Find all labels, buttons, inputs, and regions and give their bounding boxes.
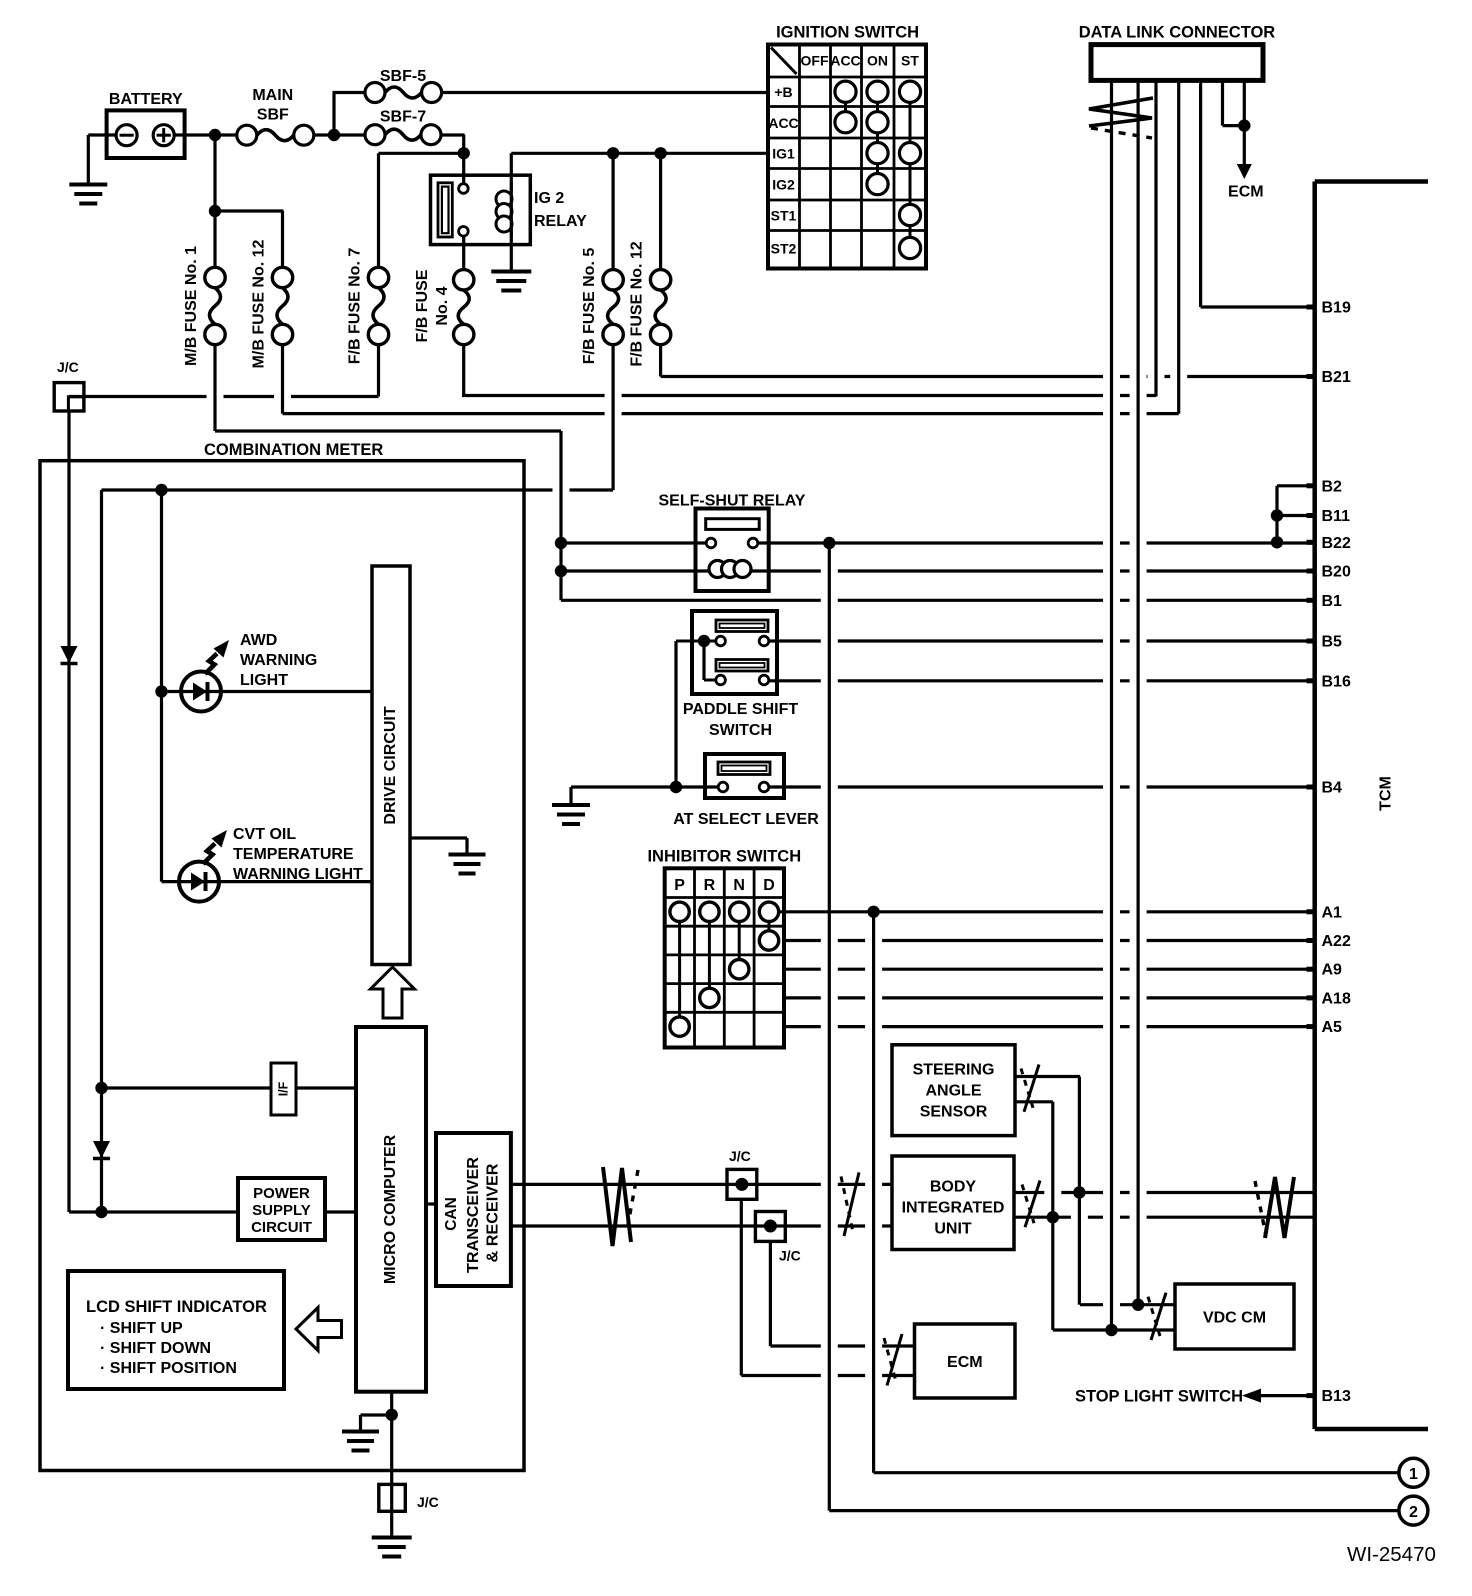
ground battery [69, 183, 107, 187]
node B18 tap [1047, 1211, 1059, 1223]
wire steering angle sensor out 2 (y=1101.8) [1015, 1100, 1053, 1103]
svg-text:CVT OIL: CVT OIL [233, 826, 296, 843]
VDC CM box [1175, 1284, 1294, 1349]
svg-text:INTEGRATED: INTEGRATED [902, 1200, 1005, 1217]
arrow drive circuit feed [371, 967, 415, 1018]
svg-text:ANGLE: ANGLE [926, 1083, 982, 1100]
wire bus to circled 2 (x=829.3) [828, 543, 831, 1511]
wire paddle internal link (x=704) [702, 641, 705, 680]
svg-text:B19: B19 [1322, 300, 1351, 317]
svg-text:RELAY: RELAY [534, 213, 587, 230]
svg-text:SUPPLY: SUPPLY [252, 1202, 311, 1219]
wire CAN high (y=1184.4) [511, 1183, 892, 1186]
pin A22 [1307, 933, 1351, 950]
wire B4 / AT select lever line (y=787) [571, 785, 1315, 788]
fuse F/B FUSE No.5 [581, 248, 623, 365]
svg-text:A1: A1 [1322, 904, 1343, 921]
pin B19 [1307, 300, 1351, 317]
svg-text:IGNITION SWITCH: IGNITION SWITCH [776, 24, 919, 42]
ground drive circuit [449, 853, 486, 857]
battery B1 [107, 91, 185, 158]
wire B21 line (y=376.5) [661, 375, 1315, 378]
svg-text:1: 1 [1409, 1466, 1418, 1483]
junction connector J/C top-left [54, 359, 84, 411]
steering angle sensor box [892, 1045, 1015, 1136]
wire SBF-5 riser (x=334) [332, 93, 335, 136]
fuse M/B FUSE No.12 [251, 239, 293, 368]
pin B20 [1307, 564, 1351, 581]
wire DLC pin 1 (x=1111.5) [1110, 80, 1113, 1330]
wire battery negative drop [87, 135, 90, 184]
svg-text:OFF: OFF [801, 53, 829, 69]
svg-text:ECM: ECM [1228, 184, 1264, 201]
svg-text:J/C: J/C [779, 1248, 801, 1264]
svg-text:B20: B20 [1322, 564, 1351, 581]
shield marker BIU left [844, 1172, 859, 1236]
wire SBF-7 to relay contact node (y=153.3) [379, 152, 466, 155]
ignition switch column links [846, 92, 911, 248]
wire B19 line (y=307) [1201, 305, 1315, 308]
wire J/C2 drop [769, 1241, 772, 1346]
svg-text:TRANSCEIVER: TRANSCEIVER [465, 1157, 482, 1273]
wire crossing breaks [207, 373, 1188, 1379]
wire B2/B11/B22 tie (x=1277) [1275, 486, 1278, 543]
svg-text:SBF-5: SBF-5 [380, 68, 426, 85]
wire J/C1 to ECM (y=1375.5) [741, 1374, 914, 1377]
wire circled 2 line (y=1510.6) [829, 1509, 1399, 1512]
node B22 tie [1271, 536, 1283, 548]
pin B2 [1307, 478, 1343, 495]
pin B5 [1307, 634, 1343, 651]
svg-text:ACC: ACC [768, 115, 798, 131]
node B11 tie [1271, 509, 1283, 521]
svg-text:POWER: POWER [253, 1185, 310, 1202]
wire F/B fuse No.4 lower lead [462, 342, 465, 396]
svg-text:2: 2 [1409, 1504, 1418, 1521]
wire A5 line (y=1026.6) [784, 1025, 1315, 1028]
wire DLC pin 5 to B19 (x=1200.6) [1199, 80, 1202, 307]
wire M/B fuse No.1 run (y=431) [215, 429, 561, 432]
svg-text:WARNING: WARNING [240, 652, 317, 669]
wire AWD LED (y=691.5) [162, 690, 373, 693]
wire relay contact to F/B fuse No.4 [462, 231, 465, 272]
wire micro computer ground (y=1415) [361, 1413, 392, 1416]
wire DLC to ECM arrow link (y=125.6) [1223, 124, 1245, 127]
fuse F/B FUSE No.12b [629, 241, 671, 366]
wire DLC pin 3 (x=1156) [1154, 80, 1157, 396]
LED CVT oil temp warning light [179, 830, 227, 902]
svg-text:J/C: J/C [57, 359, 79, 375]
wire A1 line (y=911.8) [779, 910, 1315, 913]
ignition switch labels [768, 53, 919, 257]
ground IG2 relay [491, 270, 531, 274]
pin B13 [1307, 1388, 1351, 1405]
wire micro ground drop (x=391.7) [390, 1392, 393, 1537]
node LED rail tap [155, 484, 167, 496]
wire micro to CAN transceiver (y=1204) [426, 1202, 436, 1205]
fuse SBF-5 [365, 68, 442, 103]
I/F box [271, 1063, 296, 1115]
drive circuit box [372, 566, 410, 965]
wire SBF-5 branch top (y=92.5) [333, 91, 769, 94]
micro computer box [356, 1027, 426, 1392]
wire F/B fuse No.5 upper lead [611, 153, 614, 272]
wire AT lever ground stub (x=571) [569, 787, 572, 804]
wire J/C rail (x=69) [67, 411, 70, 1212]
svg-text:B22: B22 [1322, 535, 1351, 552]
svg-text:N: N [733, 877, 745, 894]
wire meter supply rail (x=101.5) [100, 490, 103, 1212]
svg-text:ST2: ST2 [771, 241, 797, 257]
svg-text:DATA LINK CONNECTOR: DATA LINK CONNECTOR [1079, 24, 1276, 42]
svg-text:· SHIFT UP: · SHIFT UP [100, 1320, 183, 1337]
wire B5 line (y=641) [769, 639, 1315, 642]
wire M/B fuse No.12 lower lead [281, 342, 284, 414]
svg-text:D: D [763, 877, 775, 894]
svg-text:STEERING: STEERING [913, 1062, 995, 1079]
svg-text:M/B FUSE No. 1: M/B FUSE No. 1 [183, 246, 200, 366]
wire SAS1 drop (x=1079.4) [1078, 1077, 1081, 1305]
fuse M/B FUSE No.1 [183, 246, 225, 366]
circled 2 connector [1399, 1496, 1428, 1525]
svg-text:ECM: ECM [947, 1354, 983, 1371]
wire circled 1 line (y=1472.7) [874, 1471, 1399, 1474]
inhibitor switch table [647, 848, 801, 1048]
power supply circuit box [238, 1178, 325, 1240]
node power rail junction [95, 1206, 107, 1218]
wire drive circuit ground (y=838) [410, 836, 467, 839]
svg-text:CIRCUIT: CIRCUIT [251, 1219, 312, 1236]
wire A9 line (y=969.2) [784, 968, 1315, 971]
svg-text:B11: B11 [1322, 508, 1351, 525]
svg-text:TCM: TCM [1378, 776, 1395, 811]
wire J/C2 to ECM (y=1346) [770, 1344, 914, 1347]
svg-text:A9: A9 [1322, 962, 1343, 979]
wire B1 line (y=600.3) [561, 599, 1315, 602]
svg-text:BODY: BODY [930, 1179, 977, 1196]
twisted pair marker CAN [603, 1167, 631, 1246]
wire F/B fuse No.4 to DLC (y=395.5) [462, 394, 1156, 397]
node AT lever ground tap [670, 781, 682, 793]
wire B17 line (y=1192.5) [1014, 1191, 1315, 1194]
svg-text:LIGHT: LIGHT [240, 672, 288, 689]
svg-text:ST: ST [901, 53, 919, 69]
node micro ground tap [386, 1409, 398, 1421]
wire I/F branch (y=1088) [102, 1086, 357, 1089]
svg-text:PADDLE SHIFT: PADDLE SHIFT [683, 701, 798, 718]
svg-text:· SHIFT DOWN: · SHIFT DOWN [100, 1340, 211, 1357]
svg-text:R: R [704, 877, 716, 894]
TCM top edge [1315, 179, 1428, 184]
svg-text:CAN: CAN [443, 1197, 460, 1231]
wire M/B fuse No.1 drop to relays (x=561) [559, 431, 562, 600]
label CVT warning light [233, 826, 363, 883]
DLC twisted pair marker [1089, 98, 1153, 138]
svg-text:UNIT: UNIT [934, 1221, 972, 1238]
wire B16 line (y=680.8) [769, 679, 1315, 682]
wire to VDC CM upper (y=1304.7) [1080, 1303, 1175, 1306]
svg-text:AT SELECT LEVER: AT SELECT LEVER [673, 811, 819, 828]
node B22 bus tap [823, 537, 835, 549]
svg-text:DRIVE CIRCUIT: DRIVE CIRCUIT [382, 706, 399, 824]
wire power supply line (y=1212) [69, 1210, 356, 1213]
node F/B fuse No.12b tap [654, 147, 666, 159]
label AWD warning light [240, 632, 317, 689]
node paddle switch tap [698, 635, 710, 647]
wire DLC pin 2 (x=1138.1) [1136, 80, 1139, 1304]
AT select lever switch [673, 754, 819, 828]
svg-text:· SHIFT POSITION: · SHIFT POSITION [100, 1360, 237, 1377]
svg-text:B21: B21 [1322, 369, 1351, 386]
svg-text:SELF-SHUT RELAY: SELF-SHUT RELAY [659, 493, 806, 510]
wire F/B fuse No.5 into meter (y=490) [102, 488, 614, 491]
svg-text:TEMPERATURE: TEMPERATURE [233, 846, 354, 863]
self-shut relay [659, 493, 806, 592]
svg-text:MICRO COMPUTER: MICRO COMPUTER [382, 1134, 399, 1284]
relay IG2 [431, 175, 588, 244]
wire IG2 coil feed [510, 153, 513, 271]
ground bottom J/C [372, 1536, 412, 1540]
shield marker ECM [887, 1334, 902, 1386]
svg-text:IG1: IG1 [772, 146, 795, 162]
svg-text:F/B FUSE No. 5: F/B FUSE No. 5 [581, 248, 598, 365]
svg-text:F/B FUSE No. 7: F/B FUSE No. 7 [347, 248, 364, 365]
wire IG1 line from relay coil (y=153.3) [511, 152, 768, 155]
pin B16 [1307, 673, 1351, 690]
diode D1 on J/C rail [61, 646, 78, 664]
diode D2 on supply rail [93, 1141, 110, 1159]
pin A18 [1307, 990, 1351, 1007]
node B17 tap [1073, 1186, 1085, 1198]
node F/B fuse No.5 tap [607, 147, 619, 159]
LED AWD warning light [181, 640, 229, 712]
fuse MAIN SBF [237, 87, 314, 145]
ground AT select lever [552, 803, 590, 807]
pin B21 [1307, 369, 1351, 386]
svg-text:SENSOR: SENSOR [920, 1104, 988, 1121]
wire B11 stub (y=515.5) [1277, 514, 1315, 517]
wire B22 line (y=543) [758, 541, 1315, 544]
svg-text:B16: B16 [1322, 673, 1351, 690]
svg-text:J/C: J/C [729, 1148, 751, 1164]
pin A9 [1307, 962, 1343, 979]
svg-text:SWITCH: SWITCH [709, 722, 772, 739]
body integrated unit box [892, 1156, 1014, 1250]
wire A18 line (y=997.9) [784, 996, 1315, 999]
fuse F/B FUSE No.4 [414, 269, 474, 344]
svg-text:F/B FUSE: F/B FUSE [414, 269, 431, 342]
ignition switch table [768, 24, 926, 269]
node VDC lower tap [1105, 1324, 1117, 1336]
wire B22 line left segment [561, 541, 707, 544]
wire steering angle sensor out 1 (y=1076.5) [1015, 1075, 1080, 1078]
svg-text:WI-25470: WI-25470 [1347, 1543, 1436, 1566]
wire M/B fuse No.12 to DLC (y=413.6) [283, 412, 1179, 415]
junction connector J/C mid2 [755, 1212, 800, 1264]
svg-text:B1: B1 [1322, 593, 1343, 610]
node SBF-7 relay tap [458, 147, 470, 159]
TCM bottom edge [1315, 1427, 1428, 1432]
wire battery junction down (x=215) [213, 135, 216, 270]
LCD shift indicator box [68, 1271, 284, 1389]
fuse F/B FUSE No.7 [347, 248, 389, 365]
wire LED rail (x=161.5) [160, 490, 163, 882]
pin B1 [1307, 593, 1343, 610]
wire B20 line (y=571) [561, 569, 1315, 572]
node self-shut B20 tap [555, 565, 567, 577]
svg-text:MAIN: MAIN [252, 87, 293, 104]
svg-text:ACC: ACC [830, 53, 860, 69]
wire DLC pin 7 (x=1244.3) [1243, 80, 1246, 125]
wire drive ground stub [465, 838, 468, 854]
wire CAN low (y=1226) [511, 1224, 892, 1227]
wire M/B fuse No.1 lower lead [213, 342, 216, 431]
wire F/B fuse No.12b lower lead [659, 342, 662, 377]
shield marker SAS [1024, 1065, 1039, 1112]
wire J/C1 drop [740, 1199, 743, 1375]
wire F/B fuse No.7 upper lead [377, 153, 380, 269]
svg-text:& RECEIVER: & RECEIVER [485, 1164, 502, 1263]
wire M/B fuse No.12 feed (y=211) [215, 209, 284, 212]
svg-text:No. 4: No. 4 [434, 286, 451, 325]
shield marker VDC [1151, 1293, 1166, 1340]
pin A5 [1307, 1019, 1343, 1036]
wire F/B fuse No.12b upper lead [659, 153, 662, 272]
node battery junction [209, 129, 221, 141]
pin B22 [1307, 535, 1351, 552]
svg-text:INHIBITOR SWITCH: INHIBITOR SWITCH [647, 848, 801, 866]
wire M/B fuse No.12 upper lead [281, 211, 284, 270]
inhibitor switch contacts [670, 902, 779, 1036]
svg-text:B5: B5 [1322, 634, 1343, 651]
inhibitor switch column links [680, 912, 769, 1027]
svg-text:STOP LIGHT SWITCH: STOP LIGHT SWITCH [1075, 1388, 1243, 1406]
ground micro computer [342, 1430, 379, 1434]
svg-text:I/F: I/F [277, 1081, 291, 1096]
junction connector J/C mid1 [727, 1148, 757, 1199]
node self-shut B22 tap [555, 537, 567, 549]
wire J/C to F/B fuse No.7 (y=396.5) [69, 395, 379, 398]
svg-text:AWD: AWD [240, 632, 277, 649]
svg-text:COMBINATION METER: COMBINATION METER [204, 441, 383, 459]
arrow to ECM from DLC [1228, 126, 1264, 201]
pin B11 [1307, 508, 1351, 525]
node VDC upper tap [1132, 1299, 1144, 1311]
wire micro ground left stub [359, 1415, 362, 1431]
wire B2 stub (y=485.8) [1277, 484, 1315, 487]
node AWD LED tap [155, 685, 167, 697]
wire DLC pin 6 (x=1222.5) [1221, 80, 1224, 125]
node A1 bus tap [867, 906, 879, 918]
svg-text:LCD SHIFT INDICATOR: LCD SHIFT INDICATOR [86, 1298, 267, 1316]
CAN transceiver box [436, 1133, 511, 1286]
wire CVT LED (y=881.6) [162, 880, 373, 883]
wire SAS2 drop (x=1052.8) [1051, 1102, 1054, 1330]
node fuse No.12 tap [209, 205, 221, 217]
wire paddle switch to AT lever (x=676) [674, 641, 677, 787]
svg-text:+B: +B [774, 84, 792, 100]
pin A1 [1307, 904, 1343, 921]
svg-text:SBF: SBF [257, 107, 289, 124]
svg-text:WARNING LIGHT: WARNING LIGHT [233, 866, 363, 883]
ECM box [915, 1324, 1016, 1398]
junction connector J/C bottom [379, 1484, 439, 1511]
wire bus to circled 1 (x=873.6) [872, 912, 875, 1473]
circled 1 connector [1399, 1458, 1428, 1487]
node I/F tap [95, 1082, 107, 1094]
arrow stop light switch [1075, 1388, 1261, 1406]
inhibitor switch labels [674, 877, 775, 894]
wire B18 line (y=1217.2) [1014, 1216, 1315, 1219]
svg-text:J/C: J/C [417, 1494, 439, 1510]
svg-text:B2: B2 [1322, 478, 1343, 495]
wire to VDC CM lower (y=1330) [1053, 1328, 1175, 1331]
shield marker BIU right [1025, 1181, 1040, 1228]
arrow LCD indicator [296, 1308, 342, 1351]
svg-text:SBF-7: SBF-7 [380, 109, 426, 126]
wire F/B fuse No.7 lower lead [377, 342, 380, 397]
svg-text:B4: B4 [1322, 780, 1343, 797]
wire A22 line (y=940.5) [784, 939, 1315, 942]
fuse SBF-7 [365, 109, 441, 145]
svg-text:A5: A5 [1322, 1019, 1343, 1036]
svg-text:M/B FUSE No. 12: M/B FUSE No. 12 [251, 239, 268, 368]
svg-text:ST1: ST1 [771, 208, 797, 224]
svg-text:F/B FUSE No. 12: F/B FUSE No. 12 [629, 241, 646, 366]
svg-text:A22: A22 [1322, 933, 1351, 950]
TCM left edge [1312, 182, 1317, 1430]
node SBF junction [328, 129, 340, 141]
node DLC ECM tap [1238, 119, 1250, 131]
wire DLC pin 4 (x=1178.7) [1177, 80, 1180, 413]
svg-text:ON: ON [867, 53, 888, 69]
wire F/B fuse No.5 lower lead [611, 342, 614, 490]
wire battery positive bus (y=135) [88, 133, 464, 136]
twisted pair marker B17/B18 [1265, 1177, 1294, 1238]
pin B4 [1307, 780, 1343, 797]
combination meter box [40, 441, 524, 1471]
wire SBF-7 drop to relay (x=463.7) [462, 135, 465, 189]
data link connector [1079, 24, 1276, 81]
svg-text:IG2: IG2 [772, 177, 795, 193]
svg-text:IG 2: IG 2 [534, 190, 564, 207]
svg-text:A18: A18 [1322, 990, 1351, 1007]
svg-text:VDC CM: VDC CM [1203, 1310, 1266, 1327]
svg-text:P: P [674, 877, 685, 894]
ignition switch contacts [835, 81, 921, 259]
svg-text:B13: B13 [1322, 1388, 1351, 1405]
paddle shift switch [676, 611, 798, 739]
wire stop light switch B13 (y=1395.6) [1258, 1394, 1315, 1397]
svg-text:BATTERY: BATTERY [109, 91, 183, 108]
